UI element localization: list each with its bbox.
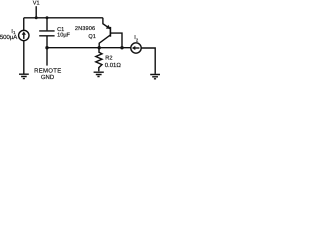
svg-text:R2: R2 [105,55,112,61]
wire I1 upper lead [23,18,25,31]
wire top rail V1 net [24,17,103,19]
transistor Q1 base lead [110,33,122,48]
ground under I1 [19,74,29,78]
resistor R2 [96,48,102,71]
wire I2 right lead [141,48,155,74]
svg-text:0.01Ω: 0.01Ω [105,62,122,69]
svg-text:GND: GND [41,74,55,81]
node C1 top junction dot [46,16,49,19]
svg-text:2: 2 [136,37,139,42]
node base junction dot [120,46,123,49]
ground under I2 [150,75,160,79]
node V1 junction dot [35,16,38,19]
wire C1 upper lead [46,18,48,31]
ground under R2 [94,72,104,76]
transistor Q1 emitter [103,18,110,29]
node remote-gnd junction dot [45,46,48,49]
current source I1 [19,30,29,40]
wire remote gnd stub [46,48,48,66]
svg-text:REMOTE: REMOTE [34,67,61,74]
svg-text:500µA: 500µA [0,34,17,41]
transistor Q1 collector [99,35,110,48]
svg-text:2N3906: 2N3906 [75,26,95,32]
capacitor C1 [39,31,54,36]
current source I2 [131,43,141,53]
wire V1 stub [35,6,37,18]
wire bottom rail [47,47,131,49]
svg-text:Q1: Q1 [88,34,95,40]
node collector junction dot [98,46,101,49]
svg-text:V1: V1 [33,1,40,7]
wire C1 lower lead [46,36,48,47]
wire I1 lower lead [23,41,25,74]
svg-text:10µF: 10µF [57,33,70,39]
transistor Q1 base bar [109,27,111,37]
